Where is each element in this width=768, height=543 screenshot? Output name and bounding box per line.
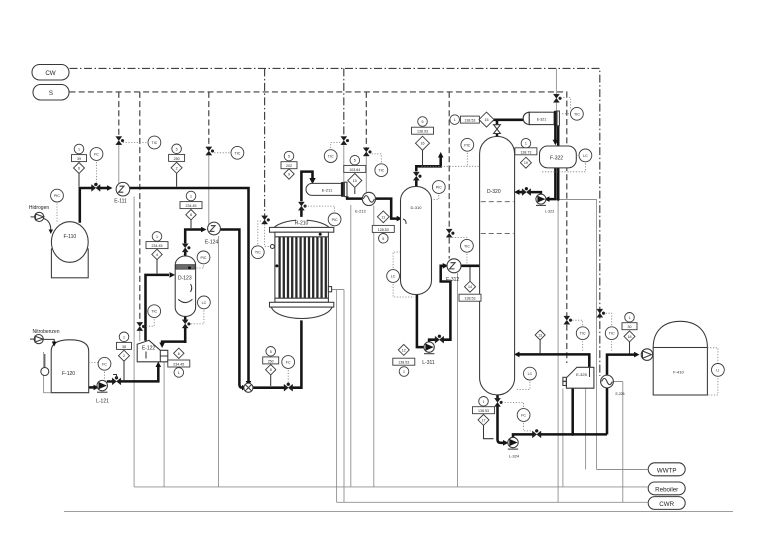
wire E-122 to D-123 feed [146, 275, 170, 341]
svg-text:8: 8 [190, 213, 192, 217]
svg-text:39: 39 [77, 157, 81, 161]
wire E-325 vapor return to D-320 [519, 354, 590, 367]
svg-text:D-310: D-310 [411, 205, 423, 210]
svg-text:LC: LC [528, 372, 533, 376]
instrument LC D-320 [516, 367, 536, 389]
heat-exchanger E-212 [355, 192, 375, 213]
wire S steam header (dashed) [70, 92, 567, 316]
valve D-320 bottoms [495, 398, 503, 406]
svg-text:5: 5 [176, 147, 178, 151]
svg-text:E-326: E-326 [616, 392, 625, 396]
svg-text:D-320: D-320 [487, 189, 501, 195]
svg-text:8: 8 [270, 368, 272, 372]
svg-text:D-123: D-123 [178, 276, 192, 282]
svg-text:LC: LC [583, 154, 588, 158]
svg-text:TIC: TIC [378, 169, 384, 173]
tag stream 8 R-210 feed [263, 347, 279, 387]
wire steam drop to E-122 [139, 92, 141, 322]
tag stream 19 F-322 [515, 138, 537, 168]
svg-text:1: 1 [629, 316, 631, 320]
instrument TIC E-212 [370, 154, 388, 177]
svg-text:S: S [49, 90, 53, 97]
tag stream 12 L-311 [393, 344, 415, 376]
wire WWTP header [597, 469, 649, 471]
instrument TIC E-111 steam [123, 136, 161, 149]
pump L-323 [536, 194, 554, 213]
wire CW supply header (dash-dot) [70, 68, 600, 376]
valve CW E-212 [363, 148, 371, 156]
tag stream 15 D-320 overhead [450, 112, 494, 127]
wire E-211 to E-212 to D-310 [347, 196, 362, 198]
svg-text:TIC: TIC [151, 310, 157, 314]
wire CW drop to E-211 [343, 68, 345, 136]
svg-text:R-210: R-210 [295, 221, 309, 227]
flow element D-320 overhead [494, 125, 501, 134]
svg-text:10: 10 [353, 179, 357, 183]
heat-exchanger E-124 [205, 222, 221, 245]
svg-text:TIC: TIC [609, 332, 615, 336]
svg-text:5: 5 [354, 159, 356, 163]
svg-text:TIC: TIC [580, 332, 586, 336]
wire E-111 condensate down [133, 197, 135, 487]
svg-text:1: 1 [78, 148, 80, 152]
svg-text:L-324: L-324 [509, 454, 520, 459]
svg-text:FC: FC [521, 414, 526, 418]
svg-text:138.73: 138.73 [520, 150, 531, 154]
svg-text:30: 30 [628, 325, 632, 329]
svg-text:Reboiler: Reboiler [655, 486, 678, 493]
wire E-325 drain to WWTP [585, 388, 587, 469]
node CWR capsule [648, 497, 685, 510]
svg-text:13: 13 [538, 334, 542, 338]
svg-text:E-124: E-124 [205, 240, 219, 246]
wire E-326 CW return down [613, 382, 623, 503]
svg-text:1: 1 [178, 371, 180, 375]
instrument TIC E-124 steam [213, 146, 244, 159]
svg-text:250: 250 [268, 359, 274, 363]
svg-text:E-325: E-325 [576, 372, 587, 377]
instrument PIC F-110 [51, 189, 64, 223]
reboiler E-325 [563, 367, 594, 388]
heat-exchanger E-122 [137, 340, 168, 362]
svg-text:FC: FC [286, 361, 291, 365]
valve steam E-124 [206, 147, 214, 155]
svg-text:F-110: F-110 [63, 234, 76, 240]
wire steam stub to E-325 [566, 325, 568, 363]
wire D-320 bottoms to L-324 [496, 395, 499, 398]
instrument LC F-322 [541, 149, 592, 172]
cooler E-326 [601, 375, 625, 396]
svg-text:FC: FC [102, 362, 107, 366]
tag stream 14 E-312 outlet [459, 267, 481, 301]
heat-exchanger E-111 [114, 182, 130, 204]
wire nitrobenzene feed to F-120 [43, 339, 54, 342]
svg-text:CW: CW [45, 70, 55, 77]
wire CW stub to E-321 [555, 68, 557, 94]
tag stream 10 E-211 [344, 155, 366, 194]
instrument PIC R-210 [306, 206, 342, 226]
svg-text:5: 5 [422, 120, 424, 124]
valve reflux L-323 [522, 187, 531, 195]
instrument LC D-123 [190, 296, 211, 324]
svg-text:TIC: TIC [235, 151, 241, 155]
valve R-210 feed FC [284, 383, 293, 391]
svg-text:LC: LC [391, 275, 396, 279]
svg-text:F-322: F-322 [550, 156, 563, 162]
svg-text:14: 14 [468, 285, 472, 289]
svg-text:250: 250 [174, 157, 180, 161]
svg-text:9: 9 [288, 173, 290, 177]
svg-text:202: 202 [286, 164, 292, 168]
tag stream 8 E-124 line [180, 191, 202, 228]
svg-text:128.53: 128.53 [378, 228, 389, 232]
node Reboiler capsule [648, 482, 685, 495]
svg-text:L-323: L-323 [545, 210, 554, 214]
wire L-311 discharge to E-312 to D-320 [429, 340, 435, 342]
reactor R-210 [270, 219, 334, 319]
drum F-322 reflux [540, 146, 577, 168]
vessel F-110 hydrogen sphere [51, 222, 88, 278]
svg-text:1: 1 [403, 370, 405, 374]
wire reboiler condensate header [134, 486, 648, 488]
valve L-121 discharge [112, 375, 121, 385]
wire E-122 condensate down [163, 362, 165, 487]
svg-text:F-410: F-410 [673, 370, 684, 375]
pump nitrobenzene feed [30, 329, 60, 347]
wire drawing frame bottom line [64, 511, 733, 513]
svg-text:1: 1 [190, 195, 192, 199]
tag stream 4 D-123 feed [146, 232, 168, 274]
valve L-311 discharge [435, 335, 444, 343]
instrument FC L-324 [502, 402, 533, 431]
valve D-123 inlet [182, 244, 190, 252]
wire D-123 top to E-124 [184, 252, 187, 256]
tag stream 13 reboiler return [535, 330, 545, 354]
column D-320 [480, 137, 515, 395]
pump product to F-410 [641, 349, 653, 361]
svg-text:138.53: 138.53 [464, 119, 475, 123]
svg-text:TIC: TIC [464, 244, 470, 248]
svg-text:TIC: TIC [255, 251, 261, 255]
wire steam drop to E-124 [208, 92, 210, 147]
pump L-324 [508, 437, 520, 458]
svg-text:E-122: E-122 [142, 346, 156, 352]
compressor H2 feed [29, 205, 50, 222]
svg-text:138.53: 138.53 [465, 297, 476, 301]
svg-text:11: 11 [381, 215, 385, 219]
wire E-211 CW return down [350, 205, 352, 487]
instrument LC D-310 [387, 252, 414, 297]
wire E-111 outlet to mixer [130, 188, 249, 382]
svg-text:6: 6 [78, 167, 80, 171]
node junction dots [95, 183, 574, 436]
wire D-310 overhead vent [415, 180, 418, 186]
instrument PIC D-320 [422, 138, 480, 166]
tag stream 16 D-310 overhead [412, 117, 434, 166]
svg-text:1: 1 [454, 118, 456, 122]
wire steam drop to E-312 [448, 92, 450, 229]
svg-text:138.53: 138.53 [398, 361, 409, 365]
svg-text:E-111: E-111 [114, 199, 127, 205]
valve steam E-111 [116, 137, 124, 145]
svg-text:234.45: 234.45 [173, 363, 184, 367]
instrument LI F-410 [707, 348, 724, 395]
instrument TIC E-321 [561, 98, 584, 121]
vessel D-310 separator [401, 187, 432, 295]
svg-text:19: 19 [524, 161, 528, 165]
wire D-123 bottoms to E-122 [184, 316, 187, 319]
valve CW E-211 [341, 137, 349, 145]
tag stream 2 E-111 outlet [169, 144, 185, 187]
valve steam E-325 [564, 316, 572, 324]
svg-text:PIC: PIC [464, 143, 470, 147]
svg-text:2: 2 [176, 166, 178, 170]
svg-text:1: 1 [525, 142, 527, 146]
wire H2 feed F-110 to E-111 main line [80, 188, 92, 223]
wire E-124 condensate down [218, 236, 220, 487]
instrument TIC E-122 [144, 305, 161, 326]
svg-text:L-121: L-121 [96, 399, 109, 405]
svg-text:PIC: PIC [201, 256, 207, 260]
svg-text:138.93: 138.93 [417, 130, 428, 134]
tag stream 17 D-320 bottoms [473, 397, 495, 439]
svg-text:103.64: 103.64 [349, 168, 360, 172]
pump L-311 [422, 342, 435, 366]
wire D-320 overhead to E-321 [496, 133, 499, 136]
wire F-322 bottoms to L-323 [549, 168, 556, 199]
svg-text:TIC: TIC [574, 112, 580, 116]
valve CW E-321 [553, 94, 561, 102]
valve R-210 outlet [298, 202, 306, 210]
svg-text:CWR: CWR [659, 501, 674, 508]
wire F-322 distillate to WWTP [558, 200, 596, 470]
svg-text:234.45: 234.45 [152, 244, 163, 248]
svg-text:18: 18 [628, 335, 632, 339]
svg-text:E-211: E-211 [322, 188, 333, 193]
mixer node feed junction [244, 383, 253, 392]
instrument TIC R-210 [251, 221, 264, 259]
svg-text:12: 12 [402, 348, 406, 352]
wire E-321 outlet to F-322 [555, 125, 558, 146]
node CW header capsule [32, 65, 69, 81]
wire CWR header [337, 501, 649, 503]
node S header capsule [33, 85, 69, 101]
svg-text:17: 17 [482, 418, 486, 422]
svg-text:F-120: F-120 [62, 371, 75, 377]
svg-text:LI: LI [716, 368, 719, 372]
svg-text:2: 2 [123, 354, 125, 358]
wire H2 feed to F-110 [44, 219, 51, 231]
svg-text:PIC: PIC [54, 194, 60, 198]
heat-exchanger E-312 [446, 259, 461, 283]
condenser E-321 [523, 111, 559, 126]
svg-text:4: 4 [156, 253, 158, 257]
svg-text:15: 15 [485, 118, 489, 122]
svg-text:PIC: PIC [436, 186, 442, 190]
svg-text:16: 16 [421, 142, 425, 146]
instrument FC R-210 feed [282, 356, 295, 384]
tag stream 6 E-122 outlet [168, 348, 190, 377]
svg-text:1: 1 [156, 235, 158, 239]
instrument TIC E-326 [604, 313, 618, 352]
wire E-326 to product pump to F-410 [607, 355, 635, 376]
svg-text:6: 6 [178, 352, 180, 356]
svg-text:PIC: PIC [332, 218, 338, 222]
wire F-120 outlet to L-121 [89, 386, 95, 389]
wire steam drop to E-111 [118, 92, 120, 136]
svg-text:38: 38 [122, 345, 126, 349]
svg-text:5: 5 [288, 155, 290, 159]
tank F-410 product [653, 321, 707, 395]
svg-text:5: 5 [382, 237, 384, 241]
valve CW E-326 [597, 309, 605, 317]
svg-text:E-212: E-212 [355, 209, 366, 214]
wire E-312 condensate down [457, 273, 459, 487]
svg-text:234.45: 234.45 [186, 204, 197, 208]
tag stream 18 product [622, 313, 637, 354]
vessel D-123 vaporizer [175, 256, 195, 316]
instrument TIC E-325 steam [571, 320, 589, 352]
svg-text:Hidrogen: Hidrogen [29, 205, 50, 211]
valve H2 feed control [92, 183, 101, 191]
wire E-321 CW return down [557, 200, 559, 503]
heat-exchanger E-211 [306, 182, 347, 196]
svg-text:TIC: TIC [328, 155, 334, 159]
svg-text:Nitrobenzen: Nitrobenzen [33, 329, 60, 335]
pump L-121 [96, 380, 109, 404]
wire L-121 discharge to E-122 [107, 380, 113, 383]
wire E-325 condensate down [562, 388, 564, 487]
valve D-310 overhead PIC [413, 172, 421, 180]
valve L-324 discharge FC [532, 429, 541, 437]
svg-text:TIC: TIC [152, 141, 158, 145]
instrument TIC E-211 [324, 143, 340, 163]
tag stream 11 D-310 feed [372, 211, 394, 243]
node WWTP capsule [648, 463, 685, 476]
tag stream 2 F-120 outlet [117, 332, 132, 380]
wire E-212 CW return down [373, 206, 375, 487]
valve D-123 bottoms [182, 320, 190, 328]
wire L-324 discharge to E-325 / E-326 [513, 434, 533, 437]
svg-text:L-311: L-311 [422, 360, 435, 366]
wire D-310 bottoms to L-311 [417, 295, 424, 348]
instrument FC L-121 [89, 357, 112, 380]
svg-text:FC: FC [94, 153, 99, 157]
wire R-210 CW outlet pair [329, 290, 344, 503]
svg-text:E-312: E-312 [446, 277, 460, 283]
instrument TIC E-312 [452, 237, 473, 264]
tag stream 9 R-210 outlet [281, 151, 297, 179]
valve CW R-210 [262, 216, 270, 224]
instrument PIC D-310 [432, 181, 445, 200]
wire CW drop to E-212 [365, 92, 367, 148]
instrument PIC D-123 [196, 251, 210, 268]
svg-text:5: 5 [270, 350, 272, 354]
valve steam E-312 [446, 229, 454, 237]
instrument FC H2 feed [90, 148, 103, 183]
vessel F-120 nitrobenzene tank [41, 340, 89, 393]
svg-text:WWTP: WWTP [657, 467, 677, 474]
tag stream 6 H2 feed [72, 144, 87, 186]
svg-text:1: 1 [483, 400, 485, 404]
wire L-323 reflux to D-320 [531, 192, 541, 194]
wire CW drop to R-210 [264, 68, 266, 215]
valve steam E-122 [137, 322, 145, 330]
svg-text:LC: LC [202, 301, 207, 305]
svg-text:1: 1 [123, 335, 125, 339]
wire R-210 top to E-211 [300, 210, 303, 217]
wire E-124 outlet down to mixer [221, 230, 244, 388]
svg-text:138.53: 138.53 [478, 409, 489, 413]
wire mixer to R-210 bottom [253, 386, 284, 389]
svg-text:E-321: E-321 [537, 118, 547, 122]
